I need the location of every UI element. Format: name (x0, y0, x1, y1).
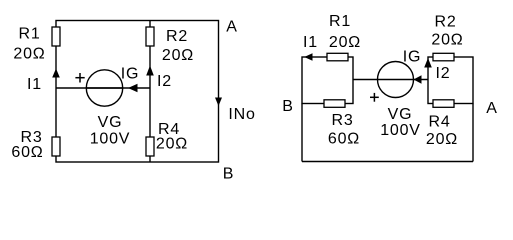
svg-text:R2: R2 (166, 28, 188, 45)
resistor R2 (146, 27, 154, 46)
wire right vertical extension (472, 104, 474, 162)
resistor R3 right (324, 100, 345, 108)
arrow IG (left) (128, 84, 138, 93)
svg-text:INo: INo (228, 106, 255, 123)
wire middle branch node (149, 21, 151, 163)
svg-text:100V: 100V (380, 122, 421, 139)
svg-text:IG: IG (403, 49, 422, 66)
svg-text:20Ω: 20Ω (329, 34, 361, 51)
svg-text:60Ω: 60Ω (11, 144, 43, 161)
resistor R4 (146, 137, 154, 156)
svg-text:IG: IG (121, 66, 140, 83)
svg-text:20Ω: 20Ω (426, 131, 458, 148)
arrow I2 right (up) (424, 58, 432, 68)
plus sign of VG (75, 73, 84, 83)
arrow I1 (up) (52, 69, 60, 78)
svg-text:VG: VG (98, 114, 123, 131)
svg-text:I2: I2 (157, 73, 172, 90)
resistor R1 right (327, 53, 348, 61)
svg-text:R3: R3 (331, 112, 353, 129)
plus sign of VG right (370, 93, 379, 102)
svg-text:VG: VG (388, 106, 413, 123)
svg-text:20Ω: 20Ω (162, 47, 194, 64)
wire outer loop left circuit (56, 21, 219, 163)
svg-text:R2: R2 (434, 14, 456, 31)
arrow I1 right (left) (304, 53, 312, 61)
svg-text:100V: 100V (90, 131, 131, 148)
arrow I2 (up) (146, 66, 154, 76)
svg-text:I1: I1 (303, 34, 318, 51)
wire left vertical extension (301, 104, 303, 162)
resistor R4 right (433, 100, 454, 108)
svg-text:20Ω: 20Ω (13, 46, 45, 63)
op-amp: voltage source VG circle (86, 70, 122, 106)
svg-text:20Ω: 20Ω (156, 136, 188, 153)
wire right loop (428, 57, 473, 104)
svg-text:R1: R1 (18, 26, 40, 43)
svg-text:60Ω: 60Ω (328, 131, 360, 148)
svg-text:I1: I1 (27, 76, 42, 93)
wire source branch horizontal (56, 87, 150, 89)
svg-text:R4: R4 (428, 114, 450, 131)
svg-text:20Ω: 20Ω (431, 32, 463, 49)
svg-text:B: B (223, 166, 234, 183)
resistor R1 (52, 27, 60, 46)
arrow IG right (left) (414, 75, 422, 84)
svg-text:R1: R1 (329, 13, 351, 30)
svg-text:I2: I2 (436, 65, 451, 82)
resistor R2 right (433, 53, 454, 61)
svg-text:B: B (282, 98, 293, 115)
wire left loop (302, 57, 353, 104)
voltage source VG circle right (378, 62, 414, 98)
wire through source (86, 87, 123, 89)
resistor R3 (52, 137, 60, 156)
arrow INo (down) (215, 98, 222, 107)
svg-text:A: A (226, 19, 237, 36)
wire main horizontal (353, 79, 428, 81)
wire bottom (302, 161, 473, 163)
svg-text:A: A (486, 100, 497, 117)
